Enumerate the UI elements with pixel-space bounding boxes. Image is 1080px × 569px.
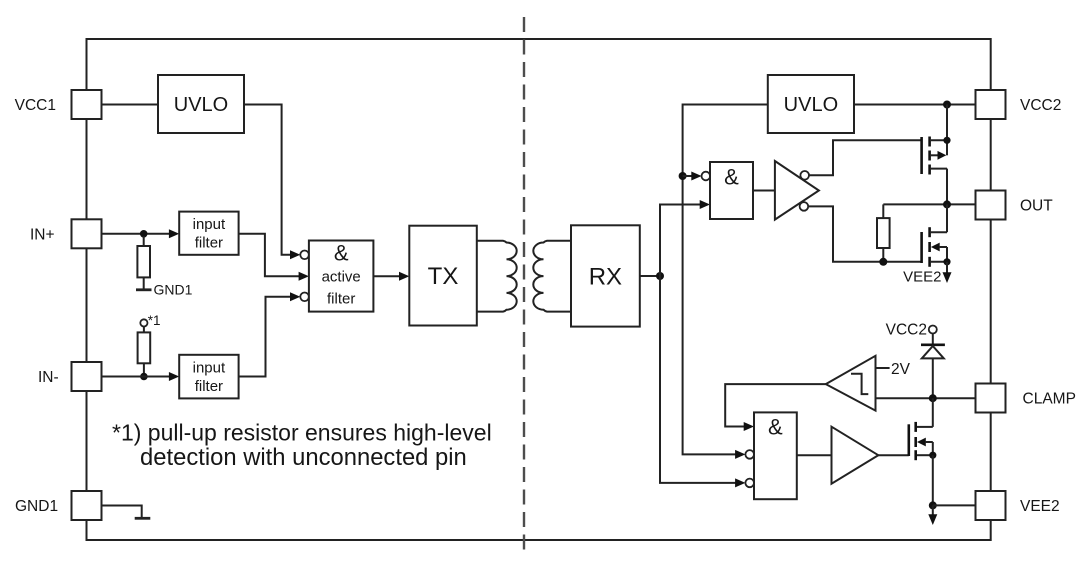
junction IN+ node bbox=[140, 230, 148, 238]
junction Q2 source-body node bbox=[943, 258, 950, 265]
pin VCC2 bbox=[976, 90, 1062, 119]
resistor R3 gate pulldown bbox=[877, 204, 890, 261]
block TX bbox=[409, 226, 477, 326]
pin VEE2 bbox=[976, 491, 1060, 520]
svg-text:VCC2: VCC2 bbox=[1020, 97, 1061, 114]
pin GND1 bbox=[15, 491, 102, 520]
block AND2 bbox=[754, 412, 797, 499]
svg-text:RX: RX bbox=[589, 263, 622, 290]
pin OUT bbox=[976, 191, 1054, 220]
wire B2 to Q3 gate bbox=[878, 454, 909, 456]
pin VCC1 bbox=[15, 90, 102, 119]
svg-text:TX: TX bbox=[428, 263, 459, 290]
transistor Q3 NMOS clamp bbox=[909, 398, 933, 460]
svg-text:GND1: GND1 bbox=[15, 498, 58, 515]
terminal VCC2 over diode bbox=[886, 322, 937, 339]
isolation barrier dashed line bbox=[523, 17, 525, 556]
inverting bubble active filter top input bbox=[300, 251, 309, 260]
svg-text:2V: 2V bbox=[891, 361, 911, 378]
package outline border bbox=[87, 39, 991, 540]
wire GND1 pin to ground bbox=[102, 506, 142, 518]
wire RX output to node bbox=[640, 275, 660, 277]
junction VCC2 node bbox=[943, 101, 951, 109]
junction OUT node bbox=[943, 200, 951, 208]
wire RX node down to AND2 input 3 bbox=[660, 276, 737, 483]
wire AND1 to buffer U2 bbox=[753, 190, 775, 192]
svg-text:CLAMP: CLAMP bbox=[1023, 391, 1076, 408]
block UVLO U3 bbox=[768, 75, 854, 133]
junction Q3 source-body node bbox=[929, 452, 936, 459]
svg-text:filter: filter bbox=[195, 378, 223, 395]
comparator COMP1 bbox=[826, 356, 876, 411]
svg-text:&: & bbox=[768, 415, 783, 440]
transformer primary winding bbox=[477, 241, 517, 312]
block input filter 2 bbox=[179, 355, 238, 399]
buffer B2 triangle bbox=[832, 427, 879, 484]
svg-text:&: & bbox=[724, 165, 739, 190]
wire IN- to input filter 2 bbox=[102, 376, 170, 378]
junction IN- node bbox=[140, 373, 148, 381]
wire comparator output to AND2 input 1 bbox=[725, 384, 826, 426]
inverting bubble U2 top output bbox=[800, 171, 809, 180]
transistor Q2 NMOS low side bbox=[922, 204, 947, 266]
svg-text:active: active bbox=[322, 269, 361, 286]
buffer U2 triangle bbox=[775, 161, 819, 220]
inverting bubble AND2 input 3 bbox=[745, 479, 754, 488]
svg-text:filter: filter bbox=[195, 235, 223, 252]
transistor Q1 PMOS high side bbox=[922, 137, 947, 205]
wire VCC2 node to PMOS Q1 drain bbox=[946, 105, 948, 141]
wire AND2 to buffer B2 bbox=[797, 454, 832, 456]
svg-text:VCC1: VCC1 bbox=[15, 97, 56, 114]
wire active filter to TX bbox=[373, 275, 399, 277]
block AND1 bbox=[710, 162, 753, 219]
svg-text:*1: *1 bbox=[148, 313, 161, 328]
wire IN+ to input filter 1 bbox=[102, 233, 170, 235]
wire OUT line bbox=[883, 203, 975, 205]
junction UVLO2 line to AND1 bbox=[679, 172, 687, 180]
svg-text:IN+: IN+ bbox=[30, 226, 55, 243]
svg-text:VCC2: VCC2 bbox=[886, 322, 927, 339]
wire CLAMP line bbox=[876, 397, 976, 399]
pull-up resistor R2 with *1 terminal bbox=[138, 313, 161, 377]
svg-text:input: input bbox=[193, 359, 226, 376]
wire UVLO1 output to active filter top input bbox=[244, 105, 292, 255]
ground symbol at GND1 pin bbox=[135, 517, 151, 520]
wire input filter 2 to active filter bottom input bbox=[239, 297, 292, 377]
diode D1 clamp to VCC2 bbox=[921, 334, 945, 399]
svg-text:input: input bbox=[193, 216, 226, 233]
block UVLO U1 bbox=[158, 75, 244, 133]
svg-text:VEE2: VEE2 bbox=[903, 269, 941, 286]
svg-text:IN-: IN- bbox=[38, 369, 59, 386]
VEE2 arrow under Q2 bbox=[903, 262, 951, 286]
junction CLAMP node bbox=[929, 394, 937, 402]
inverting bubble AND2 input 2 bbox=[745, 450, 754, 459]
ground GND1 symbol bbox=[136, 282, 193, 298]
wire UVLO2 left lead down to AND2 input 2 bbox=[683, 105, 768, 455]
inverting bubble U2 bottom output bbox=[800, 202, 809, 211]
wire VCC1 to UVLO1 bbox=[102, 104, 159, 106]
svg-text:UVLO: UVLO bbox=[174, 94, 228, 116]
wire Q3 source down to VEE2 bbox=[932, 455, 934, 505]
wire junction to AND1 top input bbox=[683, 175, 693, 177]
transformer secondary winding bbox=[533, 241, 571, 312]
2V reference lead and label bbox=[876, 361, 911, 378]
pin IN- bbox=[38, 362, 102, 391]
junction RX output node bbox=[656, 272, 664, 280]
wire RX node up to AND1 input 2 bbox=[660, 205, 701, 277]
block input filter 1 bbox=[179, 212, 238, 255]
wire input filter 1 to active filter middle input bbox=[239, 234, 299, 276]
svg-text:*1) pull-up resistor ensures h: *1) pull-up resistor ensures high-level bbox=[112, 419, 492, 445]
svg-text:GND1: GND1 bbox=[154, 282, 193, 298]
block active filter bbox=[309, 241, 374, 312]
wire VEE2 node to VEE2 pin bbox=[933, 504, 976, 506]
junction Q1 drain-body node bbox=[943, 137, 950, 144]
inverting bubble active filter bottom input bbox=[300, 293, 309, 302]
junction R3 to gate line bbox=[879, 258, 887, 266]
resistor R1 IN+ to GND1 bbox=[137, 236, 150, 289]
wire U2 bottom output to NMOS Q2 gate bbox=[808, 206, 920, 261]
svg-text:OUT: OUT bbox=[1020, 198, 1053, 215]
svg-text:&: & bbox=[334, 241, 349, 266]
svg-text:UVLO: UVLO bbox=[784, 94, 838, 116]
pin CLAMP bbox=[976, 384, 1076, 413]
note text bbox=[112, 419, 492, 471]
wire U2 top output to PMOS Q1 gate bbox=[809, 140, 921, 175]
svg-text:filter: filter bbox=[327, 291, 355, 308]
pin IN+ bbox=[30, 219, 102, 248]
svg-text:detection with unconnected pin: detection with unconnected pin bbox=[140, 444, 467, 471]
VEE2 arrow under Q3 bbox=[928, 505, 937, 525]
svg-text:VEE2: VEE2 bbox=[1020, 498, 1060, 515]
wire UVLO2 to VCC2 pin bbox=[854, 104, 976, 106]
inverting bubble AND1 top input bbox=[702, 172, 711, 181]
junction VEE2 node bbox=[929, 501, 937, 509]
block RX bbox=[571, 225, 640, 326]
